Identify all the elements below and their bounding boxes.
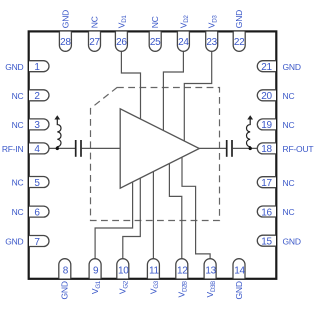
inductor L1 (input choke) bbox=[57, 119, 61, 148]
svg-text:5: 5 bbox=[34, 178, 40, 189]
arrow (input bias feed) bbox=[54, 115, 60, 119]
wire VG1 amp to pin9 bbox=[95, 182, 133, 259]
svg-text:RF-OUT: RF-OUT bbox=[283, 144, 314, 154]
pin 1 bbox=[29, 61, 49, 72]
wire VG3 amp to pin11 bbox=[152, 171, 154, 258]
svg-text:20: 20 bbox=[261, 91, 272, 102]
pin 12 bbox=[176, 259, 188, 279]
svg-text:NC: NC bbox=[12, 91, 24, 101]
node junction input bbox=[56, 147, 59, 150]
pin 27 bbox=[89, 32, 101, 52]
svg-text:24: 24 bbox=[178, 37, 189, 48]
svg-text:23: 23 bbox=[206, 37, 217, 48]
pin 9 bbox=[89, 259, 101, 279]
svg-text:9: 9 bbox=[93, 266, 99, 277]
svg-text:26: 26 bbox=[116, 37, 127, 48]
pin 19 bbox=[257, 119, 276, 130]
svg-text:14: 14 bbox=[234, 266, 245, 277]
svg-text:3: 3 bbox=[34, 120, 40, 131]
svg-text:18: 18 bbox=[261, 144, 272, 155]
pin 14 bbox=[233, 259, 245, 279]
svg-text:4: 4 bbox=[34, 144, 40, 155]
pin 16 bbox=[257, 206, 276, 217]
svg-text:1: 1 bbox=[34, 62, 40, 73]
pin 23 bbox=[206, 32, 218, 52]
svg-text:NC: NC bbox=[283, 91, 295, 101]
svg-text:RF-IN: RF-IN bbox=[2, 144, 24, 154]
pin 22 bbox=[233, 32, 245, 52]
svg-text:NC: NC bbox=[12, 178, 24, 188]
pin 28 bbox=[59, 32, 71, 52]
svg-text:25: 25 bbox=[150, 37, 161, 48]
svg-text:GND: GND bbox=[234, 10, 244, 28]
capacitor C2 (output blocking cap) bbox=[226, 140, 228, 157]
pin 20 bbox=[257, 90, 276, 101]
dashed matching-network box bbox=[91, 88, 220, 221]
wire VD3B amp to pin13 bbox=[182, 157, 210, 259]
svg-text:28: 28 bbox=[60, 37, 71, 48]
svg-text:NC: NC bbox=[12, 120, 24, 130]
svg-text:NC: NC bbox=[283, 120, 295, 130]
pin 24 bbox=[177, 32, 189, 52]
svg-text:GND: GND bbox=[5, 62, 23, 72]
svg-text:NC: NC bbox=[150, 16, 160, 28]
svg-text:11: 11 bbox=[149, 266, 160, 277]
svg-text:NC: NC bbox=[12, 207, 24, 217]
pin 6 bbox=[29, 206, 49, 217]
pin 15 bbox=[257, 235, 276, 246]
pin 17 bbox=[257, 177, 276, 188]
svg-text:27: 27 bbox=[89, 37, 100, 48]
pin 26 bbox=[115, 32, 127, 52]
wire amp output bbox=[199, 147, 226, 149]
svg-text:GND: GND bbox=[283, 62, 301, 72]
pin 11 bbox=[147, 259, 159, 279]
svg-text:7: 7 bbox=[34, 237, 40, 248]
svg-text:13: 13 bbox=[205, 266, 216, 277]
svg-text:GND: GND bbox=[60, 10, 70, 28]
svg-text:22: 22 bbox=[234, 37, 245, 48]
package outline bbox=[29, 31, 277, 278]
wire VG2 amp to pin10 bbox=[123, 178, 141, 259]
svg-text:GND: GND bbox=[5, 237, 23, 247]
svg-text:GND: GND bbox=[234, 281, 244, 299]
svg-text:16: 16 bbox=[261, 207, 272, 218]
pin 5 bbox=[29, 177, 49, 188]
inductor L2 (output choke) bbox=[246, 119, 250, 148]
svg-text:GND: GND bbox=[60, 281, 70, 299]
node junction output bbox=[249, 147, 252, 150]
wire VD2 pin24 to amp bbox=[163, 51, 183, 130]
arrow (output bias feed) bbox=[247, 115, 253, 119]
pin 25 bbox=[149, 32, 161, 52]
pin 21 bbox=[257, 61, 276, 72]
op-amp U1 (amplifier triangle) bbox=[120, 109, 199, 188]
svg-text:12: 12 bbox=[177, 266, 188, 277]
wire cap to pin18 bbox=[233, 147, 258, 149]
pin 13 bbox=[204, 259, 216, 279]
wire VD2B amp to pin12 bbox=[169, 164, 181, 259]
pin 3 bbox=[29, 119, 49, 130]
pin 18 bbox=[257, 143, 276, 154]
pin 8 bbox=[59, 259, 71, 279]
pin 2 bbox=[29, 90, 49, 101]
svg-text:2: 2 bbox=[34, 91, 40, 102]
pin 10 bbox=[117, 259, 129, 279]
wire VD3 pin23 to amp bbox=[184, 51, 211, 141]
svg-text:17: 17 bbox=[261, 178, 272, 189]
svg-text:GND: GND bbox=[283, 236, 301, 246]
svg-text:8: 8 bbox=[63, 266, 69, 277]
pin 7 bbox=[29, 236, 49, 247]
capacitor C1 (input blocking cap) bbox=[75, 140, 77, 157]
svg-text:NC: NC bbox=[89, 16, 99, 28]
wire cap to amp input bbox=[82, 147, 121, 149]
wire VD1 pin26 to amp bbox=[121, 51, 140, 119]
svg-text:NC: NC bbox=[283, 178, 295, 188]
svg-text:21: 21 bbox=[261, 62, 272, 73]
svg-text:10: 10 bbox=[118, 266, 129, 277]
svg-text:15: 15 bbox=[261, 237, 272, 248]
svg-text:19: 19 bbox=[261, 120, 272, 131]
svg-text:6: 6 bbox=[34, 207, 40, 218]
svg-text:NC: NC bbox=[283, 207, 295, 217]
wire RF input bbox=[49, 147, 75, 149]
pin 4 bbox=[29, 143, 49, 154]
